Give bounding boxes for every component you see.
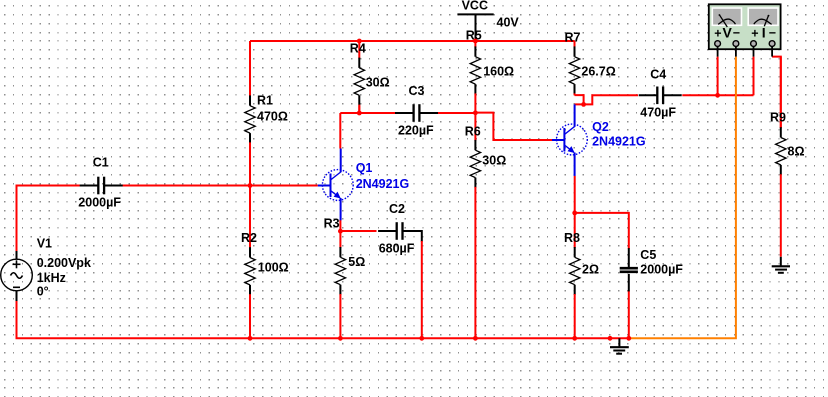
svg-text:C2: C2 xyxy=(389,202,405,216)
wire snake to C4 xyxy=(584,95,638,104)
svg-text:8Ω: 8Ω xyxy=(788,145,805,159)
svg-text:−: − xyxy=(769,26,776,40)
svg-text:160Ω: 160Ω xyxy=(483,65,514,79)
svg-text:220µF: 220µF xyxy=(398,123,434,137)
resistor R9 xyxy=(770,57,804,257)
wire I- to R9 xyxy=(772,57,781,128)
junction ground symbol rail xyxy=(608,336,613,341)
svg-text:680µF: 680µF xyxy=(379,242,415,256)
wire I+ drop xyxy=(753,57,755,96)
resistor R2 xyxy=(241,186,289,339)
svg-text:V1: V1 xyxy=(37,237,52,251)
wire top VCC rail xyxy=(250,40,575,42)
capacitor C2 xyxy=(378,202,421,256)
junction R6 ground rail xyxy=(473,336,478,341)
junction R4 top rail xyxy=(357,39,362,44)
svg-text:R4: R4 xyxy=(350,41,366,55)
wire Q1 emitter to R3 node xyxy=(339,220,341,231)
svg-text:1kHz: 1kHz xyxy=(37,271,66,285)
resistor R4 xyxy=(350,41,390,112)
svg-text:C3: C3 xyxy=(409,84,425,98)
svg-text:30Ω: 30Ω xyxy=(482,154,506,168)
svg-text:470µF: 470µF xyxy=(640,106,676,120)
transistor Q2 xyxy=(552,104,646,175)
wire C2 drop to ground rail xyxy=(421,241,423,338)
svg-text:V: V xyxy=(723,25,733,41)
wire node to Q2 base step xyxy=(475,113,552,140)
wire C1 right to node xyxy=(123,185,251,187)
svg-text:C1: C1 xyxy=(93,155,109,169)
svg-text:R2: R2 xyxy=(241,231,257,245)
svg-text:0.200Vpk: 0.200Vpk xyxy=(37,256,91,270)
transistor Q1 xyxy=(318,149,409,221)
wire bottom ground rail xyxy=(17,301,629,339)
svg-text:C5: C5 xyxy=(640,248,656,262)
capacitor C1 xyxy=(78,155,122,209)
wire Q2 emitter drop xyxy=(574,176,576,213)
svg-text:0°: 0° xyxy=(37,285,49,299)
svg-text:2N4921G: 2N4921G xyxy=(356,177,410,191)
svg-text:R7: R7 xyxy=(565,31,581,45)
resistor R3 xyxy=(324,216,366,338)
svg-text:R9: R9 xyxy=(770,111,786,125)
svg-text:30Ω: 30Ω xyxy=(366,76,390,90)
ground under rail xyxy=(610,338,629,353)
ac source V1 xyxy=(1,237,91,302)
capacitor C5 (vertical) xyxy=(620,248,684,291)
svg-text:26.7Ω: 26.7Ω xyxy=(581,65,615,79)
svg-text:2N4921G: 2N4921G xyxy=(592,135,646,149)
junction Q2 emitter R8 C5 node xyxy=(572,211,577,216)
junction C2 ground rail xyxy=(419,336,424,341)
junction R2 ground rail xyxy=(248,336,253,341)
resistor R8 xyxy=(564,213,599,338)
junction R3 ground rail xyxy=(338,336,343,341)
svg-text:Q1: Q1 xyxy=(356,161,373,175)
resistor R5 xyxy=(466,28,514,113)
wire R8 node to C5 branch xyxy=(575,213,629,249)
junction C5 orange net rail xyxy=(626,336,631,341)
wire C4 right to wattmeter xyxy=(682,94,753,96)
wire orange wattmeter V- return xyxy=(629,57,736,339)
resistor R6 xyxy=(465,113,507,338)
capacitor C4 xyxy=(639,68,682,120)
capacitor C3 xyxy=(395,84,438,137)
resistor R1 xyxy=(245,41,288,186)
svg-text:I: I xyxy=(762,25,766,41)
svg-text:100Ω: 100Ω xyxy=(258,261,289,275)
wire R4 bottom to C3 node xyxy=(340,106,359,113)
wire Q1 base xyxy=(250,185,318,187)
vcc supply xyxy=(457,0,519,41)
ground under R9 xyxy=(772,257,790,273)
junction R8 ground rail xyxy=(572,336,577,341)
svg-text:R8: R8 xyxy=(564,231,580,245)
junction VCC R5 rail xyxy=(473,39,478,44)
svg-text:5Ω: 5Ω xyxy=(348,255,365,269)
junction C1 R1 R2 Q1 base node xyxy=(248,183,253,188)
svg-text:C4: C4 xyxy=(650,68,666,82)
junction C4 wattmeter V+ node xyxy=(715,93,720,98)
resistor R7 xyxy=(565,31,616,96)
svg-text:−: − xyxy=(733,26,740,40)
wire C1 line left + V1 riser xyxy=(17,186,82,252)
svg-text:R1: R1 xyxy=(257,94,273,108)
svg-text:470Ω: 470Ω xyxy=(257,110,288,124)
svg-text:2000µF: 2000µF xyxy=(640,263,683,277)
svg-text:R6: R6 xyxy=(465,124,481,138)
junction Q1 emitter R3 C2 node xyxy=(338,229,343,234)
junction R4 bottom C3 node xyxy=(357,111,362,116)
svg-text:40V: 40V xyxy=(497,15,520,29)
wattmeter XWM1 xyxy=(709,4,781,56)
svg-text:VCC: VCC xyxy=(462,0,488,13)
svg-text:+: + xyxy=(714,27,721,41)
svg-text:2Ω: 2Ω xyxy=(582,263,599,277)
svg-text:Q2: Q2 xyxy=(592,120,609,134)
wire C2 right corner black xyxy=(403,231,422,242)
wire V+ drop xyxy=(717,57,719,96)
wire C2 left xyxy=(340,230,376,232)
junction R7 Q2 collector C4 node xyxy=(581,102,586,107)
svg-text:R3: R3 xyxy=(324,216,340,230)
wire Q1 collector riser xyxy=(339,113,341,149)
wire C5 bottom xyxy=(628,291,630,339)
junction R5 R6 C3 node xyxy=(473,110,478,115)
wire C3 right to R5 node xyxy=(438,112,475,114)
svg-text:+: + xyxy=(751,27,758,41)
wire R7 to collector snake xyxy=(575,95,584,104)
wire C3 left xyxy=(359,112,395,114)
svg-text:2000µF: 2000µF xyxy=(78,196,121,210)
